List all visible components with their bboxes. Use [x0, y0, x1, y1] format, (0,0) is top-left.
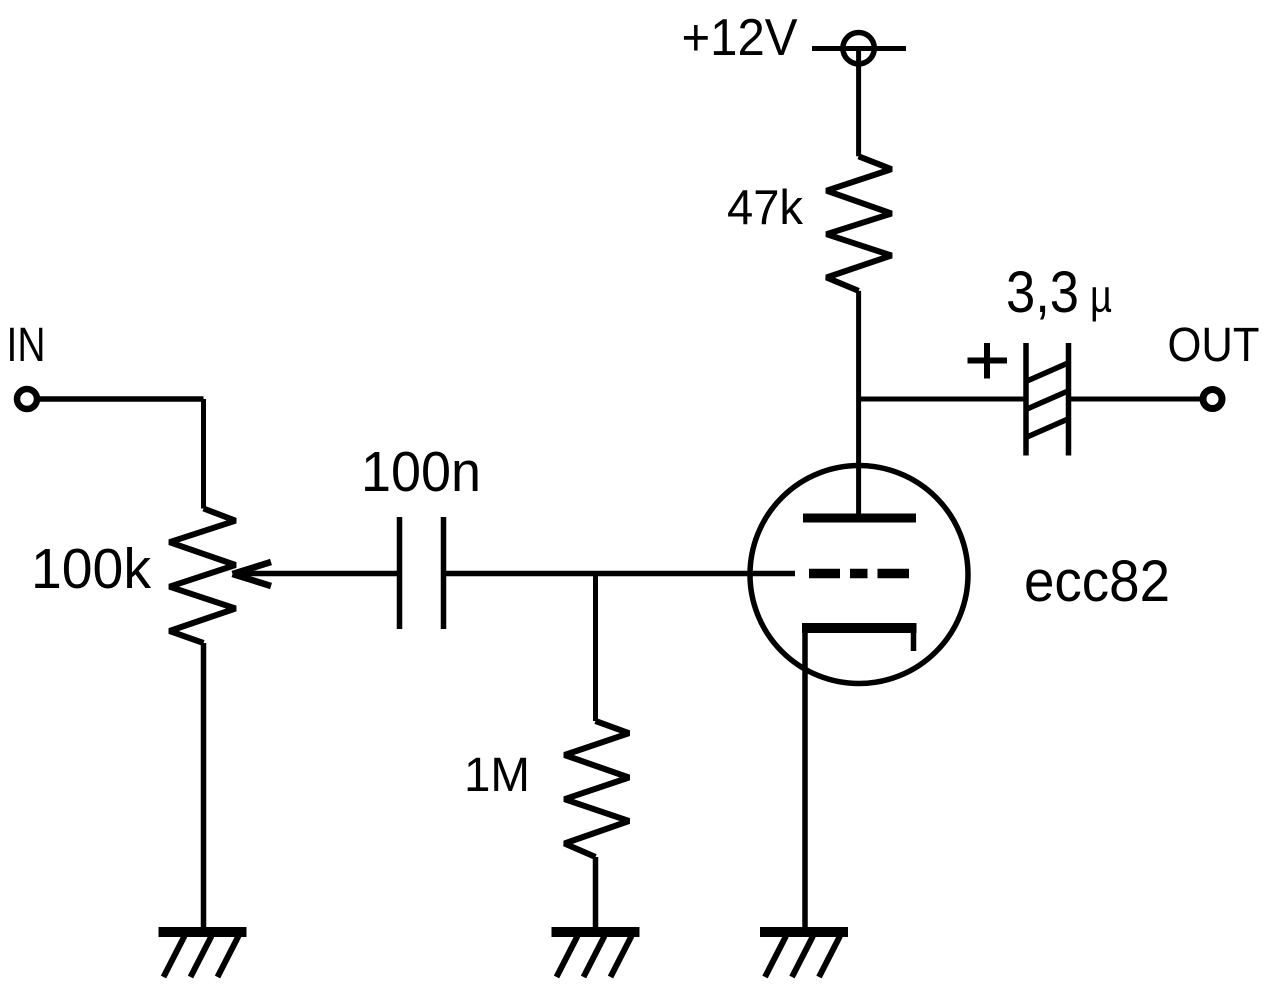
svg-text:+12V: +12V	[682, 9, 798, 67]
svg-text:OUT: OUT	[1168, 319, 1260, 372]
svg-text:100k: 100k	[31, 537, 151, 601]
svg-text:IN: IN	[7, 319, 46, 372]
svg-text:100n: 100n	[361, 440, 481, 504]
svg-text:3,3: 3,3	[1006, 260, 1079, 325]
svg-text:47k: 47k	[727, 181, 803, 235]
svg-text:µ: µ	[1090, 270, 1112, 322]
svg-text:1M: 1M	[464, 749, 530, 802]
svg-text:ecc82: ecc82	[1024, 549, 1170, 614]
